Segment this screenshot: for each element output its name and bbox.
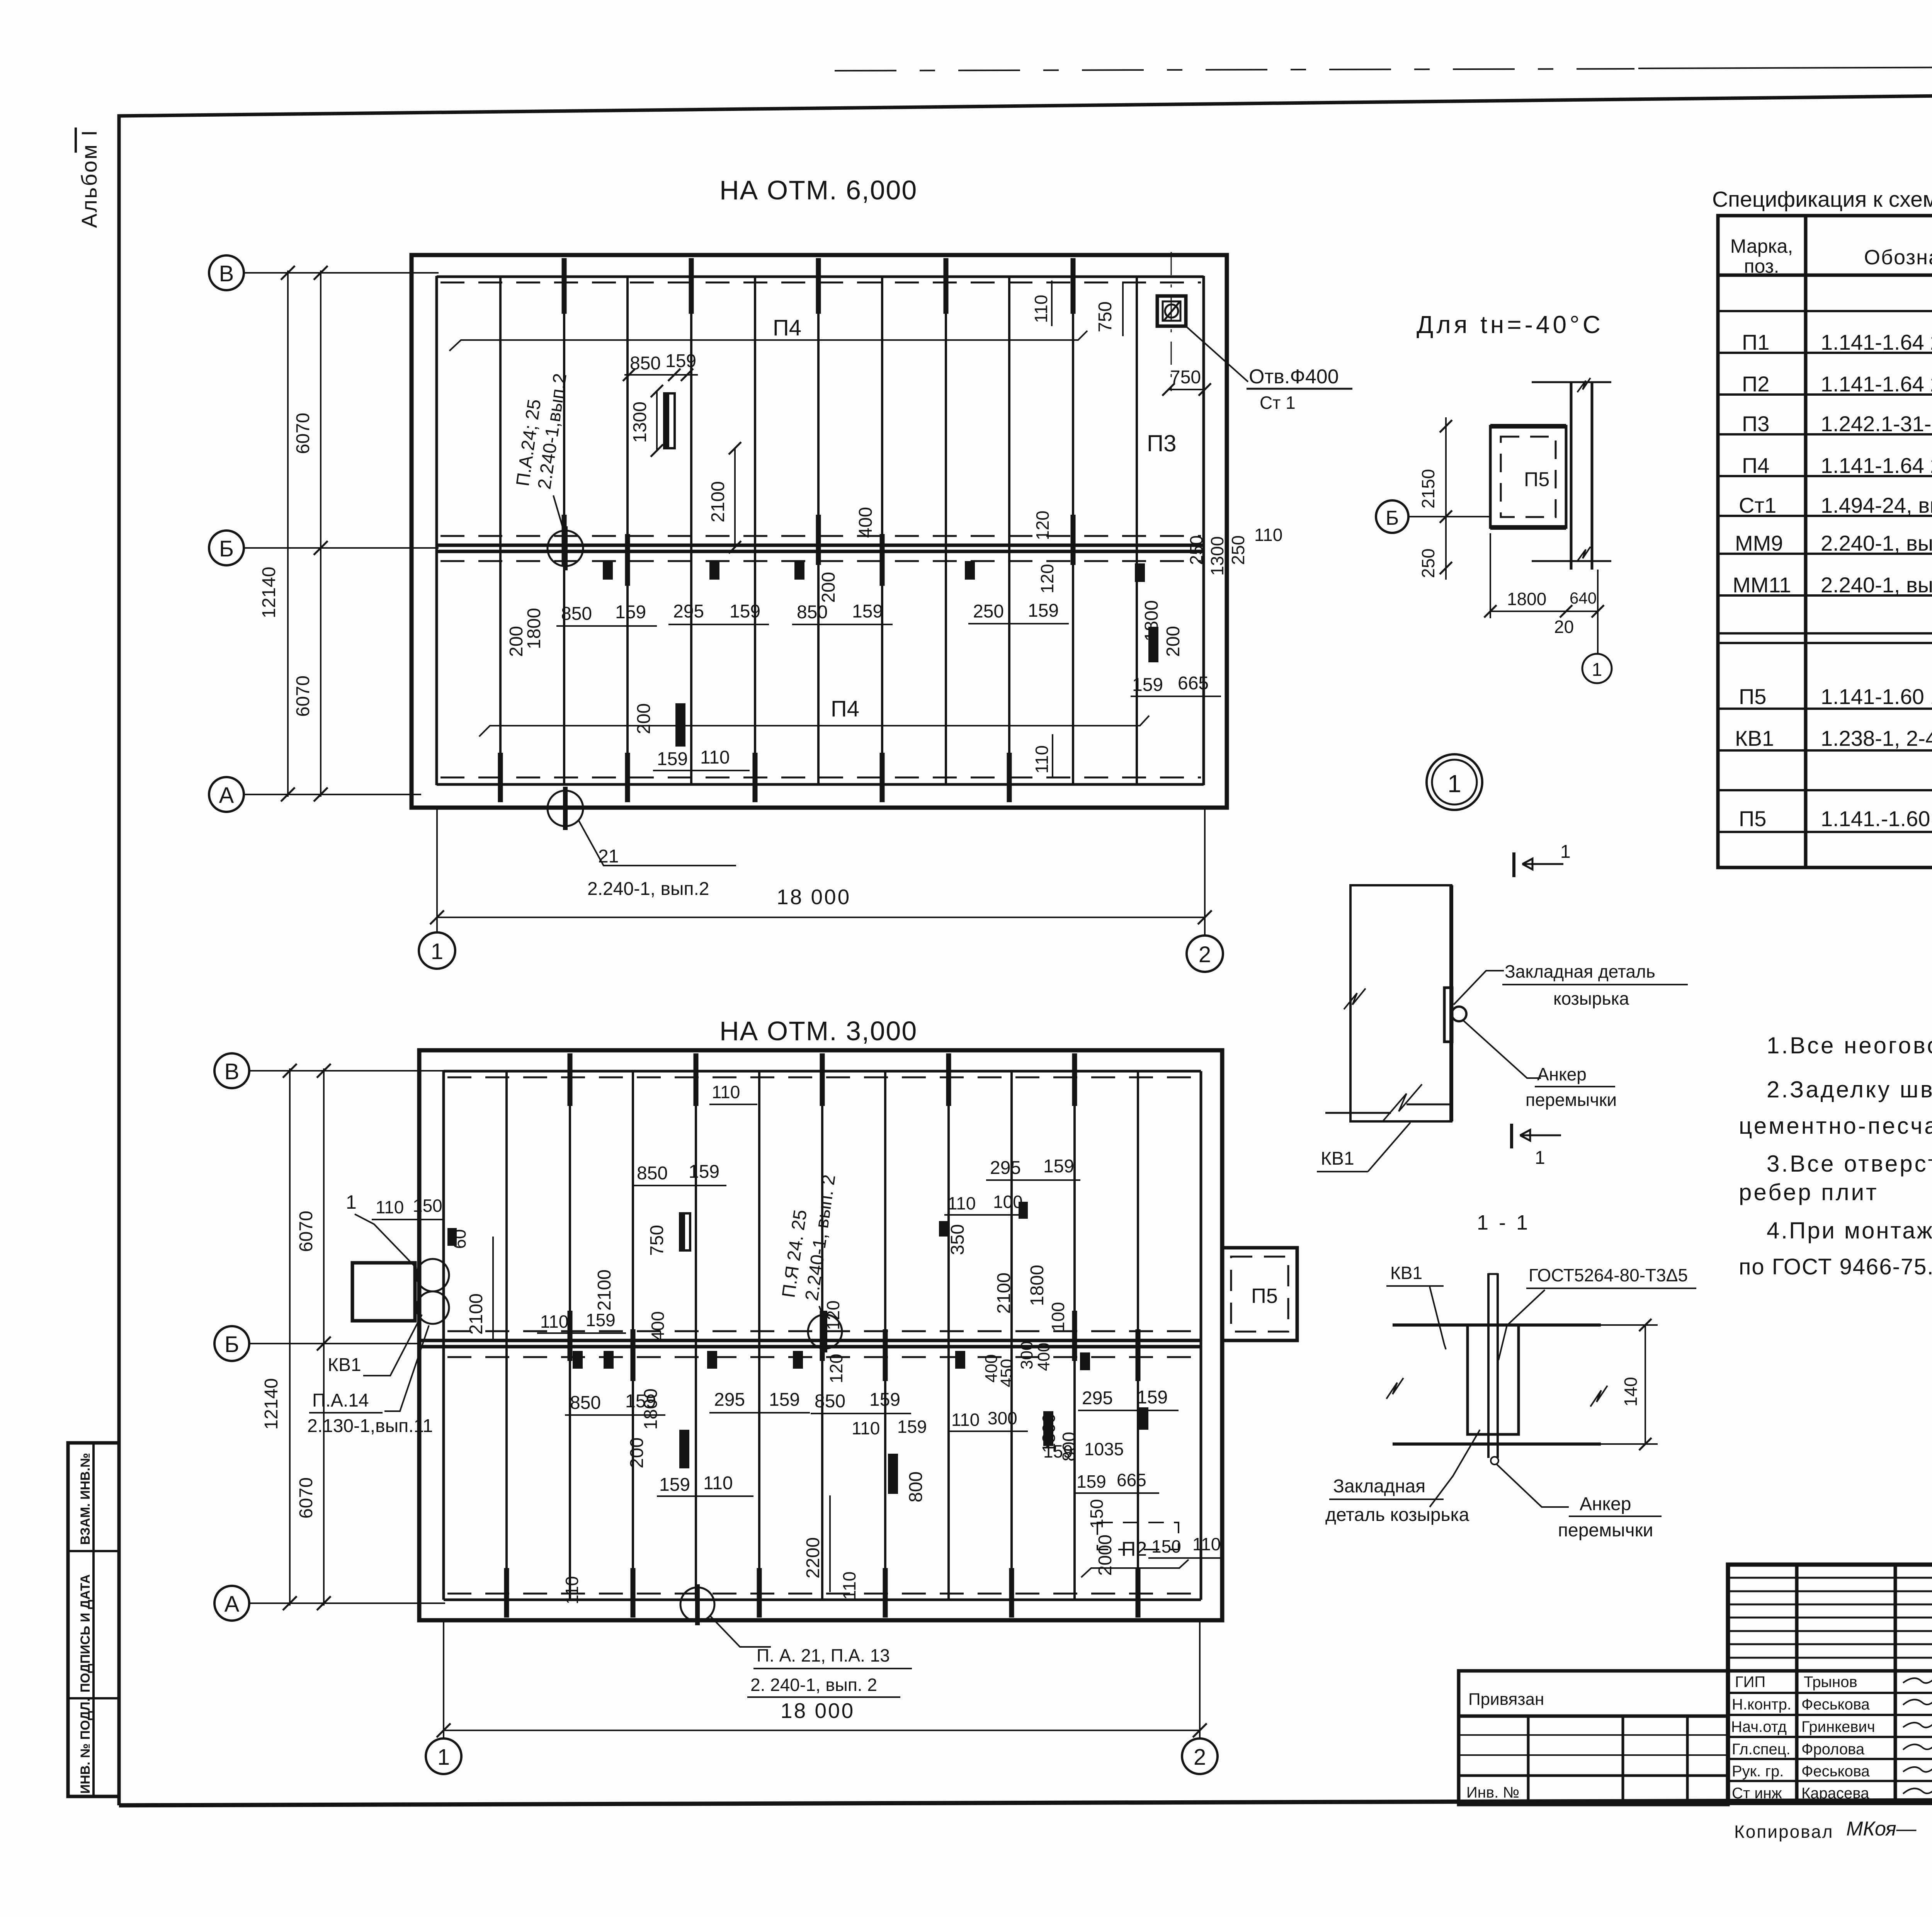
svg-text:750: 750 [647,1225,667,1256]
svg-text:П4: П4 [773,315,801,340]
svg-text:Б: Б [1386,507,1399,529]
top plan outer wall [412,255,1227,808]
anchor bolt vertical [1487,1273,1490,1458]
КВ1 entrance canopy rect [352,1263,415,1321]
callout circle on axis Б [548,531,583,566]
svg-text:3.Все отверстия высверлить, не: 3.Все отверстия высверлить, не нарушая н… [1767,1151,1932,1177]
svg-text:159: 159 [730,601,760,622]
svg-text:П4: П4 [1742,453,1769,478]
callout circle on axis А [548,791,583,826]
svg-text:А: А [224,1592,240,1617]
leader Закладная деталь козырька [1454,971,1504,1005]
axis В line [243,272,439,274]
svg-text:200: 200 [634,703,654,734]
svg-text:Анкер: Анкер [1580,1494,1631,1514]
svg-text:Копировал: Копировал [1734,1822,1834,1842]
svg-text:120: 120 [1037,564,1057,594]
svg-text:120: 120 [823,1300,843,1330]
svg-text:850: 850 [797,602,828,623]
svg-text:П.А.14: П.А.14 [312,1390,369,1411]
svg-text:159: 159 [659,1475,690,1495]
svg-text:1 - 1: 1 - 1 [1477,1211,1530,1234]
left dimension line 6070+6070 [320,270,321,797]
axis Б wall band [437,544,1204,547]
svg-text:П5: П5 [1739,684,1766,709]
panel anchor ticks bottom row [507,1568,1138,1618]
svg-text:110: 110 [951,1410,980,1430]
svg-text:120: 120 [826,1354,846,1383]
svg-text:НА ОТМ. 6,000: НА ОТМ. 6,000 [719,175,917,205]
svg-text:1.494-24, вып.1: 1.494-24, вып.1 [1821,493,1932,517]
svg-text:21: 21 [598,846,619,867]
dim 1800 640 20 [1490,533,1491,618]
left dimension line 12140 [287,270,289,797]
svg-text:159: 159 [852,601,883,622]
svg-text:ВЗАМ. ИНВ.№: ВЗАМ. ИНВ.№ [78,1453,93,1545]
svg-text:295: 295 [714,1390,745,1410]
svg-text:Обозначение: Обозначение [1864,246,1932,269]
svg-text:Нач.отд: Нач.отд [1731,1718,1787,1735]
svg-text:Привязан: Привязан [1468,1690,1544,1709]
svg-text:П. А. 21, П.А. 13: П. А. 21, П.А. 13 [757,1645,890,1665]
svg-text:ГИП: ГИП [1735,1674,1765,1691]
svg-text:110: 110 [376,1197,404,1217]
svg-text:Ст1: Ст1 [1739,493,1776,517]
svg-text:П4: П4 [831,696,859,721]
svg-text:2.240-1, вып. 2: 2.240-1, вып. 2 [1821,531,1932,555]
svg-text:1300: 1300 [1207,536,1227,576]
svg-text:1.Все неоговоренные панели П1: 1.Все неоговоренные панели П1 [1767,1032,1932,1058]
svg-text:1.238-1, 2-4.0.0.0СБ: 1.238-1, 2-4.0.0.0СБ [1821,726,1932,750]
svg-text:перемычки: перемычки [1526,1090,1617,1110]
embedded bars below axis Б [603,561,613,580]
svg-text:850: 850 [561,604,592,624]
svg-text:по ГОСТ 9466-75. Типы сварных: по ГОСТ 9466-75. Типы сварных швов выпол… [1739,1254,1932,1279]
svg-text:Фролова: Фролова [1801,1741,1865,1758]
dim 2150 250 vertical [1445,417,1447,580]
svg-text:2150: 2150 [1418,469,1438,509]
callout circle on axis А with texts [680,1587,714,1621]
svg-text:159: 159 [897,1417,927,1437]
svg-text:295: 295 [1082,1388,1113,1408]
svg-text:60: 60 [449,1229,469,1249]
svg-text:КВ1: КВ1 [1390,1263,1422,1283]
bottom plan inner wall lines [442,1071,445,1600]
svg-text:В: В [224,1059,240,1084]
КВ1 canopy elevation [1350,885,1451,1121]
svg-text:2.130-1,вып.11: 2.130-1,вып.11 [307,1416,433,1436]
canopy callout circles [417,1259,449,1291]
svg-text:Марка,: Марка, [1730,235,1793,257]
svg-text:1.141-1.64 200-07: 1.141-1.64 200-07 [1821,330,1932,354]
hidden panel edge dashed lines [440,282,1201,777]
svg-text:159: 159 [1043,1441,1073,1461]
svg-text:12140: 12140 [259,567,279,618]
svg-text:665: 665 [1178,673,1209,694]
svg-text:ГОСТ5264-80-Т3Δ5: ГОСТ5264-80-Т3Δ5 [1529,1265,1688,1285]
panel anchor ticks bottom row [500,753,1009,802]
svg-text:Карасева: Карасева [1801,1785,1869,1802]
left dimension line 12140 [289,1068,291,1606]
svg-text:2.Заделку швов между панелями: 2.Заделку швов между панелями выполнить [1767,1077,1932,1102]
svg-text:110: 110 [562,1576,582,1604]
svg-text:козырька: козырька [1553,988,1629,1009]
embedded bars below axis Б [573,1351,583,1369]
svg-text:2.240-1, вып. 2: 2.240-1, вып. 2 [1821,573,1932,597]
svg-text:110: 110 [540,1311,568,1332]
svg-text:Для tн=-40°С: Для tн=-40°С [1417,311,1604,338]
svg-text:НА ОТМ. 3,000: НА ОТМ. 3,000 [719,1016,917,1046]
panel anchor ticks middle row [570,1311,1138,1381]
left margin stamp strip [68,1443,119,1796]
svg-text:110: 110 [839,1572,859,1600]
stakan Ст1 square [1171,252,1172,391]
svg-text:1: 1 [431,939,443,964]
node mark double circle 1 [1427,754,1482,810]
svg-text:12140: 12140 [261,1378,282,1430]
person row lines [1728,1693,1932,1781]
svg-text:850: 850 [815,1391,845,1412]
svg-text:П2: П2 [1742,372,1769,396]
svg-text:18 000: 18 000 [777,885,851,909]
svg-text:110: 110 [700,747,730,768]
svg-text:6070: 6070 [296,1477,316,1519]
axis В bubble [209,255,244,290]
svg-text:Закладная: Закладная [1333,1476,1425,1497]
bar and dims 159 665 right [1148,627,1158,662]
dashed small rects bottom right area [1097,1522,1179,1550]
canopy bottom break line [1325,1112,1391,1114]
svg-text:1: 1 [1447,770,1461,798]
panel joint lines [507,1071,1138,1600]
axis 1 bubble [426,1738,461,1774]
dim 60 rotated with bar [447,1228,457,1246]
svg-text:Отв.Ф400: Отв.Ф400 [1249,366,1339,388]
auxiliary table left of title block [1459,1671,1728,1805]
svg-text:КВ1: КВ1 [328,1355,361,1375]
axis Б bubble [209,531,244,565]
svg-text:1: 1 [346,1191,357,1213]
dim 140 [1645,1325,1646,1444]
svg-text:100: 100 [993,1192,1023,1212]
svg-text:Б: Б [224,1332,239,1357]
svg-text:П5: П5 [1524,468,1549,491]
svg-text:1: 1 [1560,842,1571,862]
svg-text:250: 250 [973,601,1004,622]
left small revision grid [1728,1578,1932,1658]
axis 1 bubble [419,932,455,969]
svg-text:А: А [219,783,234,808]
svg-text:Альбом I: Альбом I [77,129,101,228]
svg-text:640: 640 [1570,589,1597,607]
panel anchor ticks top row [564,258,1073,314]
svg-text:400: 400 [1034,1343,1053,1371]
axis Б line [243,547,439,549]
svg-text:750: 750 [1095,301,1116,332]
axis Б line [249,1343,421,1344]
inner partition top-left room [569,1325,571,1341]
svg-text:295: 295 [990,1158,1021,1178]
title block outer [1728,1565,1932,1803]
svg-text:Спецификация к схемам располо: Спецификация к схемам расположения элеме… [1712,187,1932,212]
section mark 1 top [1512,852,1515,877]
svg-text:2: 2 [1194,1745,1206,1770]
svg-text:ПОДПИСЬ И ДАТА: ПОДПИСЬ И ДАТА [78,1574,93,1692]
svg-text:159: 159 [1043,1156,1074,1177]
svg-text:2.240-1, вып.2: 2.240-1, вып.2 [587,879,709,899]
person rows [1731,1674,1875,1802]
svg-text:159: 159 [869,1390,900,1410]
axis 1 bubble of detail [1597,570,1599,654]
svg-text:ММ11: ММ11 [1733,573,1791,597]
svg-text:Инв. №: Инв. № [1466,1784,1519,1801]
dim 1300 [656,391,658,451]
svg-text:110: 110 [1192,1534,1221,1554]
top plan inner wall lines [435,276,438,785]
svg-text:ребер плит: ребер плит [1739,1179,1879,1205]
svg-text:18 000: 18 000 [781,1699,855,1723]
svg-text:1800: 1800 [524,608,544,649]
svg-text:120: 120 [1032,510,1053,540]
П5 panel protrusion right [1222,1248,1297,1340]
svg-text:110: 110 [1032,745,1052,774]
axis 2 bubble [1187,936,1223,972]
svg-text:ММ9: ММ9 [1735,531,1783,555]
left dimension line 6070+6070 [323,1068,325,1606]
svg-text:Феськова: Феськова [1801,1696,1870,1713]
wall section double line [1570,382,1573,570]
svg-text:110: 110 [712,1082,740,1102]
svg-text:6070: 6070 [296,1211,316,1252]
svg-text:140: 140 [1621,1377,1641,1407]
svg-text:1.141-1.64 200-19: 1.141-1.64 200-19 [1821,453,1932,478]
svg-text:20: 20 [1554,617,1574,637]
svg-text:П3: П3 [1147,430,1177,456]
svg-text:Закладная деталь: Закладная деталь [1505,961,1655,981]
svg-text:850: 850 [637,1163,668,1184]
svg-text:110: 110 [1254,525,1282,545]
section mark 1 bottom [1510,1124,1513,1148]
svg-text:1035: 1035 [1084,1439,1124,1459]
svg-text:1: 1 [1592,660,1602,680]
axis В line [249,1070,445,1072]
svg-text:800: 800 [906,1471,926,1502]
svg-text:Ст инж: Ст инж [1732,1785,1782,1802]
svg-text:159: 159 [657,749,688,769]
embedded plate on canopy [1444,988,1452,1042]
svg-text:Б: Б [219,536,234,561]
svg-text:В: В [219,261,234,286]
svg-text:1.141-1.64 200-01: 1.141-1.64 200-01 [1821,372,1932,396]
signatures (cursive squiggles) [1903,1675,1932,1794]
svg-text:250: 250 [1186,535,1206,565]
svg-text:Анкер: Анкер [1537,1064,1587,1084]
svg-text:поз.: поз. [1744,255,1779,277]
svg-text:2100: 2100 [466,1293,486,1335]
svg-text:300: 300 [988,1408,1017,1428]
svg-text:450: 450 [997,1359,1016,1387]
svg-text:деталь козырька: деталь козырька [1325,1505,1469,1525]
svg-text:2000: 2000 [1095,1534,1116,1576]
axis Б bubble of detail [1376,500,1408,533]
svg-text:цементно-песчаным раствором ма: цементно-песчаным раствором марки 100 [1739,1113,1932,1139]
svg-text:2200: 2200 [803,1537,823,1579]
1-1 lintel body [1393,1323,1601,1327]
svg-text:159: 159 [1028,600,1059,621]
leader Закладная деталь козырька (section) [1430,1430,1480,1507]
svg-text:295: 295 [673,601,704,622]
svg-text:150: 150 [413,1196,442,1216]
svg-text:400: 400 [855,507,876,538]
svg-text:159: 159 [615,602,646,623]
leader Анкер перемычки [1463,1020,1541,1078]
svg-text:1: 1 [1535,1148,1545,1168]
bottom dimension 18000 [443,1621,444,1738]
svg-text:2: 2 [1199,942,1211,967]
svg-text:перемычки: перемычки [1558,1520,1653,1541]
svg-text:250: 250 [1418,548,1438,578]
svg-text:100: 100 [1048,1302,1068,1332]
svg-text:159: 159 [1137,1387,1168,1408]
svg-text:159: 159 [1132,675,1163,695]
svg-text:110: 110 [703,1473,733,1493]
svg-text:КВ1: КВ1 [1735,726,1774,750]
svg-text:Феськова: Феськова [1801,1763,1870,1780]
svg-text:1.141-1.60 1000-14: 1.141-1.60 1000-14 [1821,684,1932,709]
svg-text:1300: 1300 [630,401,650,443]
svg-text:6070: 6070 [293,413,313,454]
axis 2 bubble [1182,1738,1218,1774]
svg-text:П1: П1 [1742,330,1769,354]
svg-text:350: 350 [947,1224,968,1255]
axis А line [249,1602,445,1604]
svg-text:1.141.-1.60.1000-14: 1.141.-1.60.1000-14 [1821,806,1932,831]
svg-text:110: 110 [852,1418,880,1438]
svg-text:ИНВ. № ПОДЛ.: ИНВ. № ПОДЛ. [78,1698,93,1794]
svg-text:400: 400 [648,1311,668,1341]
svg-text:159: 159 [586,1310,616,1330]
axis А line [243,794,421,795]
spec table grid [1718,216,1932,867]
П5 panel section [1490,426,1566,527]
svg-text:200: 200 [627,1437,647,1468]
svg-text:250: 250 [1228,535,1248,565]
lower mid bar with 200 159 110 [675,703,685,747]
svg-text:Рук. гр.: Рук. гр. [1732,1763,1784,1780]
svg-text:2100: 2100 [708,481,728,522]
svg-text:850: 850 [570,1393,601,1413]
svg-text:159: 159 [689,1162,719,1182]
svg-text:159: 159 [665,351,696,371]
svg-text:150: 150 [1151,1536,1181,1556]
Отв.Ф400 Ст1 annotation [1187,327,1248,382]
svg-text:1800: 1800 [1507,589,1546,609]
title block main lines [1728,1565,1932,1803]
paper top edge mark [835,69,1634,71]
svg-text:П5: П5 [1251,1284,1278,1308]
dim 2100 upper [734,448,736,547]
svg-text:П3: П3 [1742,412,1769,436]
svg-text:1800: 1800 [641,1388,661,1430]
embedded U plate [1468,1325,1519,1434]
svg-text:КВ1: КВ1 [1321,1148,1354,1169]
svg-text:110: 110 [1031,295,1051,323]
svg-text:200: 200 [1163,626,1184,657]
callout text 21 2.240-1 вып.2 [579,821,736,866]
embedded element bar [664,393,675,448]
hidden panel edge dashed lines [447,1077,1198,1594]
svg-text:Трынов: Трынов [1804,1674,1857,1691]
bottom plan outer wall [419,1050,1222,1620]
svg-text:4.При монтаже козырька сварку: 4.При монтаже козырька сварку производит… [1767,1218,1932,1243]
svg-text:110: 110 [947,1193,976,1213]
axis А bubble [209,777,244,812]
svg-text:МКоя—: МКоя— [1846,1818,1917,1840]
leader Анкер перемычки (section) [1497,1465,1569,1507]
panel anchor ticks top row [570,1053,1075,1106]
svg-text:2. 240-1, вып. 2: 2. 240-1, вып. 2 [750,1675,877,1695]
bar with 159 110 below [679,1430,689,1468]
svg-text:Н.контр.: Н.контр. [1732,1696,1791,1713]
svg-text:2100: 2100 [994,1272,1014,1314]
svg-text:6070: 6070 [293,675,313,717]
svg-text:159: 159 [769,1390,800,1410]
svg-text:159: 159 [1077,1471,1106,1492]
panel joint lines [500,277,1137,784]
svg-text:200: 200 [506,626,527,657]
axis Б wall band [419,1339,1201,1342]
svg-text:Гринкевич: Гринкевич [1801,1718,1875,1735]
svg-text:2100: 2100 [594,1269,615,1311]
svg-text:665: 665 [1117,1470,1146,1490]
svg-text:300: 300 [1017,1341,1036,1369]
svg-text:1.242.1-31-1.0.0.0-04: 1.242.1-31-1.0.0.0-04 [1821,412,1932,436]
svg-text:П5: П5 [1739,806,1766,831]
panel anchor ticks middle row [564,515,1073,586]
svg-text:1800: 1800 [1027,1265,1048,1306]
svg-text:Гл.спец.: Гл.спец. [1732,1741,1791,1758]
svg-text:1: 1 [437,1745,450,1770]
svg-text:200: 200 [818,572,839,603]
bottom dimension 18000 [436,808,438,932]
svg-text:Ст 1: Ст 1 [1260,393,1296,413]
